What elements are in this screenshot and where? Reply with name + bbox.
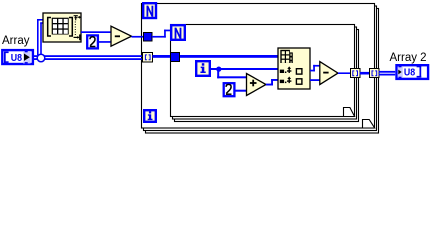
wire: add output to Index Array second index	[266, 84, 273, 86]
function Array Size	[43, 13, 81, 42]
wire: Index Array row2 output to subtract lower input	[310, 79, 320, 81]
inner loop page-curl (dog-ear corner)	[344, 108, 355, 117]
tunnel (auto-indexing) on inner loop right border	[351, 69, 361, 78]
wire: 1D array inside outer loop	[152, 55, 278, 58]
wire: junction down to add	[217, 69, 219, 78]
constant 2 (top)	[87, 35, 98, 48]
wire: constant 2 to add	[236, 90, 247, 92]
wire: subtract output to inner-loop tunnel	[338, 72, 351, 74]
junction dot on i wire	[216, 67, 221, 72]
subtract function (inner)	[320, 62, 338, 85]
wire: Array terminal to junction (2D double line)	[33, 55, 143, 57]
inner loop iteration terminal i	[196, 61, 210, 76]
subtract function (top)	[111, 26, 132, 46]
control terminal Array [U8]	[2, 50, 33, 64]
2D array glyph	[280, 50, 290, 63]
svg-text:Array 2: Array 2	[390, 52, 427, 64]
outer loop count terminal N	[143, 3, 156, 18]
svg-text:U8: U8	[404, 67, 416, 79]
inner for-loop frame (stacked pages)	[171, 25, 359, 122]
function Index Array	[278, 48, 310, 89]
wire: Array Size output to subtract	[81, 31, 111, 33]
wire: 1D array between tunnels	[360, 72, 370, 75]
outer loop iteration terminal i	[144, 110, 156, 122]
wire: Index Array row1 output to subtract upper input	[310, 70, 315, 72]
indicator terminal Array 2 [U8]	[397, 65, 429, 79]
add function	[247, 74, 267, 96]
index row 2 glyphs	[280, 80, 284, 83]
index row 1 glyphs	[280, 70, 284, 73]
junction ring on array wire	[37, 54, 45, 62]
wire: constant 2 to subtract	[99, 41, 112, 43]
constant 2 (inner)	[224, 83, 235, 96]
tunnel (auto-indexing) on outer loop left border	[143, 53, 153, 63]
wire: vertical double line up to Array Size	[37, 20, 39, 55]
wire: 2D array to indicator (double line)	[379, 71, 396, 73]
outer loop page-curl (dog-ear corner)	[363, 120, 375, 129]
wire: tunnel to inner loop N (with jog)	[152, 36, 166, 38]
svg-text:U8: U8	[11, 53, 23, 65]
tunnel (solid) on outer loop left border	[144, 33, 153, 42]
svg-text:Array: Array	[2, 35, 30, 47]
tunnel (auto-indexing) on outer loop right border	[370, 69, 380, 78]
wire: subtract to tunnel	[132, 36, 145, 38]
outer for-loop frame (stacked pages)	[142, 4, 379, 134]
wire: i to Index Array first index	[211, 68, 278, 70]
inner loop count terminal N	[171, 25, 185, 40]
tunnel (solid) on inner loop left border	[171, 53, 180, 62]
